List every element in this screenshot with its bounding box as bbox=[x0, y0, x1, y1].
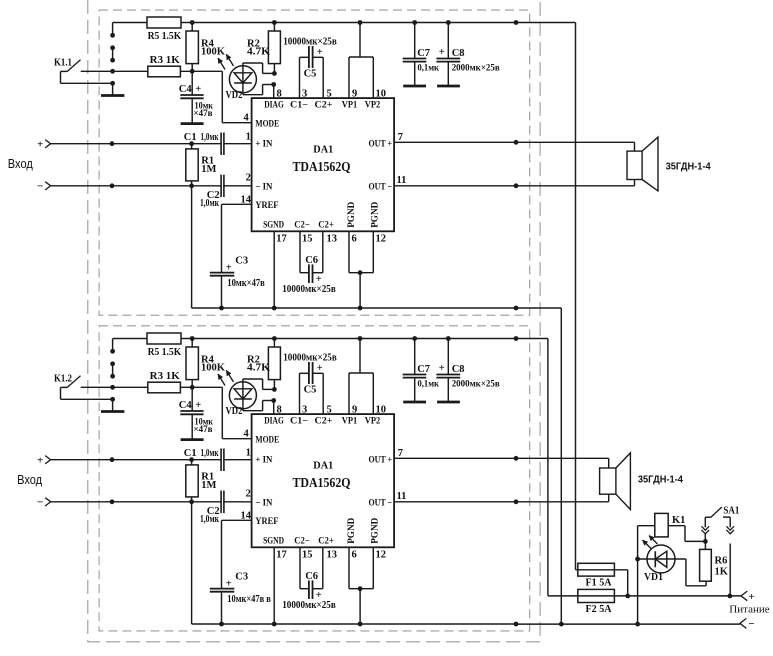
svg-text:1M: 1M bbox=[201, 164, 216, 175]
svg-text:OUT +: OUT + bbox=[369, 139, 393, 149]
svg-text:13: 13 bbox=[327, 234, 338, 245]
svg-text:R5 1.5K: R5 1.5K bbox=[148, 31, 182, 42]
svg-text:10000мк×25в: 10000мк×25в bbox=[283, 37, 337, 48]
svg-text:+: + bbox=[195, 400, 201, 411]
svg-text:+ IN: + IN bbox=[255, 139, 272, 149]
svg-text:C2−: C2− bbox=[294, 221, 310, 231]
svg-text:17: 17 bbox=[276, 550, 287, 561]
svg-text:TDA1562Q: TDA1562Q bbox=[293, 475, 351, 490]
svg-text:11: 11 bbox=[397, 175, 407, 186]
svg-text:+: + bbox=[317, 47, 323, 58]
svg-text:SGND: SGND bbox=[263, 221, 284, 231]
svg-text:5: 5 bbox=[327, 89, 332, 100]
svg-text:+: + bbox=[37, 454, 43, 466]
svg-text:100K: 100K bbox=[201, 47, 226, 58]
svg-text:4: 4 bbox=[244, 429, 250, 440]
svg-text:2: 2 bbox=[246, 488, 251, 499]
svg-text:C1: C1 bbox=[184, 132, 197, 143]
svg-text:17: 17 bbox=[276, 234, 287, 245]
svg-text:35ГДН-1-4: 35ГДН-1-4 bbox=[638, 474, 683, 485]
svg-text:1K: 1K bbox=[715, 566, 729, 577]
svg-text:6: 6 bbox=[352, 234, 357, 245]
svg-text:MODE: MODE bbox=[255, 436, 279, 446]
svg-text:C2+: C2+ bbox=[318, 537, 334, 547]
svg-text:VD2: VD2 bbox=[226, 406, 243, 417]
svg-text:×47в: ×47в bbox=[194, 425, 213, 435]
svg-text:C4: C4 bbox=[179, 84, 193, 95]
svg-text:R3 1K: R3 1K bbox=[150, 55, 181, 66]
svg-text:− IN: − IN bbox=[255, 183, 272, 193]
svg-text:3: 3 bbox=[302, 405, 307, 416]
svg-text:PGND: PGND bbox=[347, 518, 357, 544]
svg-text:+: + bbox=[439, 47, 445, 58]
svg-text:4: 4 bbox=[244, 113, 250, 124]
svg-text:−: − bbox=[748, 618, 754, 630]
svg-text:0,1мк: 0,1мк bbox=[418, 380, 440, 390]
svg-text:0,1мк: 0,1мк bbox=[418, 64, 440, 74]
svg-text:C5: C5 bbox=[304, 385, 317, 396]
svg-text:C6: C6 bbox=[305, 255, 318, 266]
svg-text:8: 8 bbox=[277, 405, 282, 416]
svg-text:+ IN: + IN bbox=[255, 455, 272, 465]
svg-text:6: 6 bbox=[352, 550, 357, 561]
svg-text:C8: C8 bbox=[452, 48, 465, 59]
svg-text:4.7K: 4.7K bbox=[247, 363, 271, 374]
svg-text:C7: C7 bbox=[417, 364, 430, 375]
svg-text:Вход: Вход bbox=[8, 156, 33, 171]
svg-text:K1.2: K1.2 bbox=[54, 374, 72, 385]
svg-text:3: 3 bbox=[302, 89, 307, 100]
svg-text:C2+: C2+ bbox=[315, 417, 333, 427]
svg-text:C5: C5 bbox=[304, 69, 317, 80]
svg-text:SA1: SA1 bbox=[723, 506, 739, 517]
svg-text:7: 7 bbox=[398, 448, 403, 459]
svg-text:VD1: VD1 bbox=[644, 572, 663, 583]
svg-text:1,0мк: 1,0мк bbox=[201, 132, 219, 143]
svg-text:10000мк×25в: 10000мк×25в bbox=[283, 353, 337, 364]
svg-text:4.7K: 4.7K bbox=[247, 47, 271, 58]
svg-text:OUT +: OUT + bbox=[369, 455, 393, 465]
svg-text:C6: C6 bbox=[305, 571, 318, 582]
svg-text:+: + bbox=[195, 84, 201, 95]
svg-text:F1 5A: F1 5A bbox=[586, 577, 612, 588]
svg-text:10: 10 bbox=[376, 89, 387, 100]
svg-text:14: 14 bbox=[241, 194, 252, 205]
svg-text:VD2: VD2 bbox=[226, 90, 243, 101]
svg-text:C2+: C2+ bbox=[318, 221, 334, 231]
svg-text:2000мк×25в: 2000мк×25в bbox=[452, 380, 500, 390]
svg-text:15: 15 bbox=[302, 550, 313, 561]
svg-text:R3 1K: R3 1K bbox=[150, 371, 181, 382]
svg-text:1: 1 bbox=[246, 132, 251, 143]
svg-text:10: 10 bbox=[376, 405, 387, 416]
svg-text:TDA1562Q: TDA1562Q bbox=[293, 159, 351, 174]
svg-text:C7: C7 bbox=[417, 48, 430, 59]
svg-text:C2−: C2− bbox=[294, 537, 310, 547]
svg-text:C3: C3 bbox=[235, 572, 248, 583]
svg-text:R5 1.5K: R5 1.5K bbox=[148, 347, 182, 358]
svg-text:2000мк×25в: 2000мк×25в bbox=[452, 64, 500, 74]
svg-text:2: 2 bbox=[246, 172, 251, 183]
svg-text:9: 9 bbox=[352, 405, 357, 416]
svg-text:×47в: ×47в bbox=[194, 109, 213, 119]
svg-text:YREF: YREF bbox=[255, 201, 278, 211]
svg-text:C1: C1 bbox=[184, 448, 197, 459]
svg-text:VP1: VP1 bbox=[342, 101, 358, 111]
svg-text:OUT −: OUT − bbox=[369, 499, 393, 509]
svg-text:OUT −: OUT − bbox=[369, 183, 393, 193]
svg-text:+: + bbox=[226, 262, 232, 273]
svg-text:PGND: PGND bbox=[371, 202, 381, 228]
svg-text:14: 14 bbox=[241, 510, 252, 521]
svg-text:11: 11 bbox=[397, 491, 407, 502]
svg-text:1: 1 bbox=[246, 448, 251, 459]
svg-text:YREF: YREF bbox=[255, 517, 278, 527]
svg-text:1,0мк: 1,0мк bbox=[200, 198, 219, 209]
svg-text:C3: C3 bbox=[235, 256, 248, 267]
svg-text:12: 12 bbox=[376, 550, 387, 561]
svg-text:8: 8 bbox=[277, 89, 282, 100]
svg-text:9: 9 bbox=[352, 89, 357, 100]
svg-text:+: + bbox=[748, 591, 754, 603]
svg-text:DA1: DA1 bbox=[313, 460, 333, 472]
svg-text:10мк×47в в: 10мк×47в в bbox=[227, 594, 271, 605]
svg-text:1,0мк: 1,0мк bbox=[200, 514, 219, 525]
svg-text:VP2: VP2 bbox=[365, 101, 381, 111]
svg-text:SGND: SGND bbox=[263, 537, 284, 547]
svg-text:13: 13 bbox=[327, 550, 338, 561]
svg-text:+: + bbox=[226, 578, 232, 589]
svg-text:−: − bbox=[37, 181, 43, 193]
svg-text:+: + bbox=[317, 363, 323, 374]
svg-text:7: 7 bbox=[398, 132, 403, 143]
svg-text:− IN: − IN bbox=[255, 499, 272, 509]
svg-text:C1−: C1− bbox=[290, 101, 308, 111]
svg-text:DIAG: DIAG bbox=[264, 101, 284, 111]
svg-text:K1.1: K1.1 bbox=[54, 58, 72, 69]
svg-text:35ГДН-1-4: 35ГДН-1-4 bbox=[666, 161, 711, 172]
svg-text:1,0мк: 1,0мк bbox=[201, 448, 219, 459]
svg-text:Вход: Вход bbox=[17, 472, 42, 487]
svg-text:+: + bbox=[37, 138, 43, 150]
svg-text:R6: R6 bbox=[715, 555, 728, 566]
svg-text:5: 5 bbox=[327, 405, 332, 416]
svg-text:VP2: VP2 bbox=[365, 417, 381, 427]
svg-text:−: − bbox=[37, 497, 43, 509]
svg-text:+: + bbox=[439, 363, 445, 374]
svg-text:C8: C8 bbox=[452, 364, 465, 375]
svg-text:10000мк×25в: 10000мк×25в bbox=[282, 600, 336, 611]
svg-text:10000мк×25в: 10000мк×25в bbox=[282, 284, 336, 295]
svg-text:PGND: PGND bbox=[347, 202, 357, 228]
svg-text:C2+: C2+ bbox=[315, 101, 333, 111]
svg-text:DA1: DA1 bbox=[313, 144, 333, 156]
svg-text:1M: 1M bbox=[201, 480, 216, 491]
svg-text:100K: 100K bbox=[201, 363, 226, 374]
svg-text:PGND: PGND bbox=[371, 518, 381, 544]
svg-text:12: 12 bbox=[376, 234, 387, 245]
svg-text:DIAG: DIAG bbox=[264, 417, 284, 427]
svg-text:F2 5A: F2 5A bbox=[586, 604, 612, 615]
svg-text:Питание: Питание bbox=[729, 604, 769, 616]
svg-text:MODE: MODE bbox=[255, 120, 279, 130]
svg-text:C1−: C1− bbox=[290, 417, 308, 427]
svg-text:VP1: VP1 bbox=[342, 417, 358, 427]
svg-text:K1: K1 bbox=[672, 515, 685, 526]
svg-text:10мк×47в: 10мк×47в bbox=[227, 278, 265, 289]
svg-text:C4: C4 bbox=[179, 400, 193, 411]
svg-text:15: 15 bbox=[302, 234, 313, 245]
